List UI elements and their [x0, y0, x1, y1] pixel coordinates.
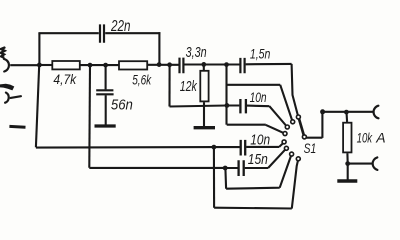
- wire mid vertical down to bottom rail: [213, 147, 215, 208]
- switch wiper S1: [299, 119, 304, 135]
- capacitor 3,3n bars: [180, 58, 184, 74]
- wire row2: [170, 106, 240, 107]
- scribble above J2: [0, 84, 14, 91]
- wire C4 feed: [227, 125, 284, 133]
- capacitor 1,5n bars: [240, 58, 244, 73]
- capacitor 10n lower bars: [241, 140, 246, 156]
- wire 1,5n to corner: [246, 63, 292, 66]
- contact C3: [285, 125, 289, 129]
- node row2 top: [167, 62, 172, 67]
- capacitor 56n lead: [105, 65, 107, 89]
- svg-text:10k: 10k: [357, 130, 373, 146]
- ground 12k: [194, 126, 215, 129]
- contact C8: [296, 157, 300, 161]
- wire 22n loop left vertical: [38, 33, 40, 65]
- svg-text:10n: 10n: [250, 133, 270, 149]
- wire 56n to ground: [105, 95, 107, 124]
- wire 22n loop right vertical: [158, 32, 160, 64]
- node row2 cross: [225, 103, 230, 108]
- svg-text:3,3n: 3,3n: [186, 45, 207, 61]
- svg-text:22n: 22n: [110, 18, 130, 35]
- contact C2: [291, 120, 295, 124]
- wire output row: [323, 111, 373, 113]
- resistor R 5,6k: [119, 61, 147, 69]
- wire 10n upper to slant C3: [247, 106, 286, 126]
- node rail2: [223, 166, 228, 171]
- wire 22n top rail left: [38, 32, 98, 34]
- wire rail2: [89, 167, 237, 169]
- contact C7: [290, 152, 294, 156]
- output jack JO1: [374, 106, 379, 119]
- ground dash left: [9, 125, 25, 129]
- node input: [37, 63, 42, 68]
- node 12k top: [201, 62, 206, 67]
- output jack JO2: [373, 157, 378, 170]
- wire R2 to 3,3n: [147, 64, 179, 66]
- wire J2 stub: [11, 96, 21, 98]
- svg-text:12k: 12k: [180, 78, 198, 95]
- scribble above J1: [1, 48, 5, 58]
- contact C1: [296, 115, 300, 119]
- wire R1 to R2: [80, 64, 119, 66]
- wire pole to output corner: [306, 112, 322, 138]
- svg-text:10n: 10n: [250, 89, 267, 105]
- resistor R 10k: [343, 123, 351, 153]
- wire elbow branch to C2: [227, 85, 292, 120]
- contact C6: [284, 146, 288, 150]
- input jack J1: [4, 59, 9, 72]
- svg-text:1,5n: 1,5n: [250, 46, 271, 62]
- capacitor 56n bars: [96, 90, 113, 94]
- svg-text:15n: 15n: [248, 152, 268, 168]
- capacitor 22n bars: [100, 24, 104, 42]
- ground 56n: [95, 124, 116, 127]
- resistor R 10k leads: [347, 112, 373, 179]
- contact C5: [282, 140, 286, 144]
- svg-text:5,6k: 5,6k: [132, 72, 152, 88]
- node elbow top: [224, 62, 229, 67]
- wire vertical input node down (v1): [36, 65, 39, 147]
- input jack J2: [5, 93, 9, 103]
- wire 22n top rail right: [105, 32, 160, 34]
- capacitor 15n bars: [239, 160, 244, 176]
- contact C4: [283, 132, 287, 136]
- wire bottom rail: [214, 161, 298, 209]
- node 22n right: [157, 62, 162, 67]
- wire row2 vertical drop: [168, 65, 170, 107]
- wire slant to contact C1: [292, 64, 298, 115]
- svg-text:4,7k: 4,7k: [53, 71, 77, 87]
- wire 3,3n to 1,5n: [184, 63, 239, 65]
- capacitor 10n upper bars: [240, 99, 246, 113]
- wire row5 drop and rail: [225, 156, 291, 189]
- node rail1: [212, 145, 217, 150]
- resistor R 4,7k: [52, 61, 80, 69]
- pole P: [302, 135, 306, 139]
- svg-text:A: A: [375, 130, 385, 146]
- node 10k top: [344, 110, 349, 115]
- svg-text:56n: 56n: [111, 97, 133, 113]
- wire rail1: [36, 146, 240, 149]
- node v2 top: [88, 63, 93, 68]
- wire J1 to node: [10, 64, 39, 66]
- ground output: [337, 179, 357, 182]
- wire 15n to slant C6: [245, 150, 285, 168]
- wire 10n lower to slant: [246, 143, 283, 147]
- wire main row node to R1: [39, 64, 52, 66]
- svg-text:S1: S1: [304, 141, 317, 156]
- node output corner: [320, 109, 325, 114]
- node 10k bottom: [345, 161, 350, 166]
- node 56n top: [103, 63, 108, 68]
- resistor R 12k: [203, 65, 205, 70]
- switch S1 contacts: [282, 115, 306, 161]
- wire vertical node2 down (v2): [88, 65, 91, 168]
- wire elbow vertical from main row: [225, 65, 227, 125]
